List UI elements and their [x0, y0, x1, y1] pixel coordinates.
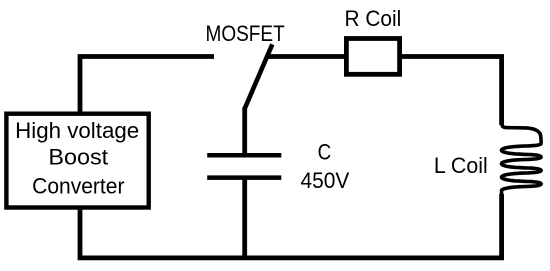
svg-text:C: C — [318, 139, 332, 164]
svg-text:Converter: Converter — [32, 174, 124, 199]
svg-text:450V: 450V — [301, 168, 350, 193]
svg-text:Boost: Boost — [48, 145, 108, 170]
svg-text:High voltage: High voltage — [15, 118, 139, 143]
svg-text:L Coil: L Coil — [434, 153, 488, 178]
svg-text:MOSFET: MOSFET — [206, 21, 285, 46]
svg-text:R Coil: R Coil — [345, 6, 402, 31]
